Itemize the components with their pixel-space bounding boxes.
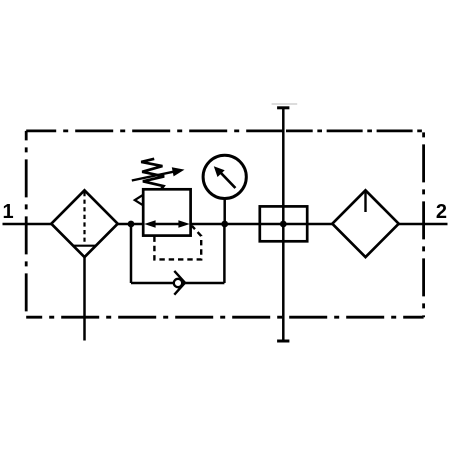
enclosure dash-dot border top edge left part	[26, 129, 283, 132]
branch top hairline	[272, 103, 298, 105]
wire port 2 outlet	[398, 223, 448, 226]
filter F1 body	[51, 190, 117, 257]
regulator U1 body	[143, 189, 190, 235]
gauge needle	[214, 166, 236, 188]
node junction bypass left	[128, 221, 135, 228]
branch top terminal T-bar	[277, 106, 289, 109]
wire bypass bottom right	[183, 282, 225, 285]
enclosure dash-dot border top edge right part	[286, 129, 424, 132]
svg-text:1: 1	[2, 201, 13, 223]
lubricator drip line	[364, 192, 366, 213]
enclosure dash-dot border right edge	[422, 131, 425, 317]
wire drain line	[83, 257, 86, 340]
wire branch vertical	[282, 108, 285, 341]
regulator relief vent triangle	[135, 195, 143, 205]
wire port 1 inlet	[3, 223, 54, 226]
regulator adjustment arrow	[132, 167, 185, 180]
regulator flow path arrows	[144, 220, 190, 227]
lubricator L1 body	[332, 190, 398, 257]
branch bottom terminal T-bar	[277, 340, 289, 343]
node junction gauge/bypass	[221, 221, 228, 228]
wire bypass bottom left	[131, 282, 174, 285]
enclosure dash-dot border left edge	[25, 131, 28, 317]
wire filter to regulator	[118, 223, 144, 226]
filter element dashed centerline	[83, 192, 85, 245]
regulator adjustment spring	[141, 159, 164, 190]
enclosure dash-dot border bottom edge	[26, 316, 423, 319]
wire bypass riser	[223, 224, 226, 283]
pressure gauge G1	[203, 155, 246, 198]
check valve V1	[174, 271, 185, 295]
water separator triangle	[73, 246, 96, 257]
distribution block body	[260, 206, 307, 241]
wire gauge stem	[223, 199, 226, 225]
wire regulator to block	[191, 223, 333, 226]
node junction block center	[280, 221, 287, 228]
pilot dashed feedback line	[154, 226, 201, 260]
wire bypass left drop	[130, 224, 133, 283]
svg-text:2: 2	[436, 201, 447, 223]
